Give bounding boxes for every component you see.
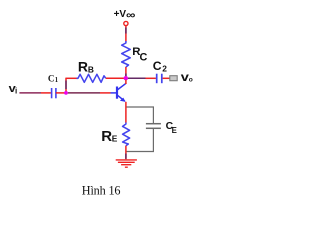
label +Vcc supply — [114, 9, 136, 22]
wire red into C2 — [146, 77, 156, 79]
transistor Q1 — [111, 83, 127, 101]
wire RE to ground — [125, 146, 127, 160]
svg-text:o: o — [189, 77, 193, 84]
label C1 — [48, 73, 59, 84]
wire Rc to collector node — [125, 67, 127, 77]
svg-text:Hình 16: Hình 16 — [82, 184, 121, 198]
svg-text:i: i — [15, 86, 17, 95]
wire input (maroon) — [19, 92, 41, 94]
wire C1 to base node — [56, 92, 65, 94]
resistor RE — [123, 123, 130, 146]
svg-text:∞: ∞ — [126, 9, 136, 22]
wire C2 to output box — [163, 77, 170, 79]
svg-text:B: B — [88, 64, 94, 74]
svg-text:+V: +V — [114, 9, 127, 20]
label C2 — [153, 59, 168, 73]
capacitor CE — [146, 124, 161, 129]
label vo — [181, 70, 193, 83]
svg-text:1: 1 — [55, 77, 59, 84]
wire collector lead red — [125, 80, 127, 84]
wire red to base — [100, 92, 111, 94]
wire purple above node — [125, 74, 127, 78]
wire base node up-leg — [65, 78, 67, 93]
transistor emitter arrowhead — [120, 98, 126, 102]
wire base node to transistor (maroon) — [68, 92, 100, 94]
label RB — [78, 59, 94, 75]
wire CE branch bottom — [126, 128, 153, 151]
svg-text:R: R — [101, 128, 112, 145]
wire red into C1 — [41, 92, 51, 94]
svg-text:C: C — [153, 59, 162, 73]
label CE — [166, 121, 177, 135]
label RE — [101, 128, 118, 145]
wire to RB — [65, 77, 76, 79]
svg-text:R: R — [78, 59, 88, 75]
resistor RB — [77, 74, 106, 82]
wire Vcc to Rc — [125, 26, 127, 42]
label RC — [132, 46, 147, 63]
ground — [116, 160, 137, 167]
supply terminal (open circle) — [124, 21, 128, 25]
capacitor C2 — [157, 74, 162, 84]
capacitor C1 — [52, 88, 56, 98]
wire purple overlay left leg — [65, 81, 67, 90]
node base (dot) — [64, 91, 68, 95]
wire purple stem — [125, 154, 127, 159]
svg-text:C: C — [48, 73, 55, 83]
resistor RC — [122, 41, 131, 67]
wire purple segment — [125, 28, 127, 34]
svg-text:E: E — [112, 133, 118, 143]
output terminal box — [170, 76, 177, 81]
label vi — [9, 82, 18, 95]
node collector (dot) — [124, 76, 128, 80]
svg-text:2: 2 — [162, 63, 167, 73]
wire collector node to C2 (purple) — [128, 77, 146, 79]
wire emitter down to RE — [125, 102, 127, 123]
wire RB to collector node — [106, 77, 124, 79]
svg-text:E: E — [172, 126, 177, 135]
wire CE branch top — [127, 107, 154, 124]
svg-text:C: C — [140, 51, 148, 63]
